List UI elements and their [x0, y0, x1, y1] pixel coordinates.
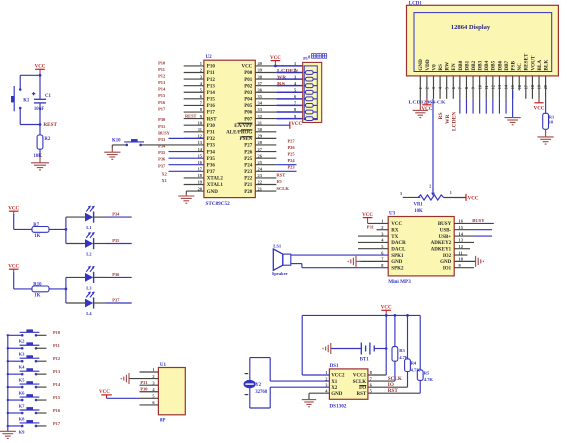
U2 GND pin 20 wire: [186, 191, 204, 196]
wire to L1 anode: [66, 216, 85, 218]
U1 pin6 stub: [140, 404, 159, 406]
svg-text:EA/VPP: EA/VPP: [234, 124, 252, 129]
svg-text:SPK2: SPK2: [391, 266, 404, 271]
resistor R3 4.7K: [392, 315, 409, 381]
svg-text:P37: P37: [158, 163, 166, 168]
svg-text:1: 1: [294, 61, 296, 66]
svg-text:32768: 32768: [255, 390, 268, 395]
ground (K10): [104, 152, 120, 159]
label 12864 Display: [451, 24, 491, 31]
svg-text:GND: GND: [207, 190, 219, 195]
svg-text:16: 16: [517, 85, 522, 89]
net label P11: [53, 343, 60, 348]
svg-text:DS1302: DS1302: [329, 403, 346, 409]
svg-text:C1: C1: [45, 94, 51, 99]
U2 pin numbers 1-20 (left): [198, 61, 203, 191]
svg-text:P35: P35: [112, 238, 120, 243]
U2 left pin stubs: [184, 66, 204, 185]
potentiometer VR1 10K: [414, 184, 444, 213]
svg-text:Y2: Y2: [255, 383, 261, 388]
svg-text:2: 2: [429, 184, 431, 188]
svg-text:P16: P16: [53, 408, 61, 413]
svg-text:17: 17: [523, 85, 528, 89]
svg-text:R10: R10: [33, 283, 42, 288]
LCD data stub wires DB0-DB7: [460, 99, 506, 114]
svg-text:WR: WR: [277, 74, 287, 79]
bus wires U2 P0x to resistor pack (rows 40-32): [276, 66, 304, 119]
svg-text:Mini MP3: Mini MP3: [388, 279, 411, 285]
svg-text:DB3: DB3: [478, 60, 484, 70]
svg-text:P36: P36: [207, 163, 216, 168]
svg-text:P12: P12: [207, 78, 216, 83]
net label P36: [112, 272, 120, 277]
net wire and label BUSY (U3 pin16): [472, 218, 494, 224]
wire RST (DS1 pin5): [368, 388, 420, 394]
power VCC (LED group 1): [8, 207, 19, 214]
svg-text:P30: P30: [158, 117, 166, 122]
svg-text:P11: P11: [53, 343, 60, 348]
svg-text:IO2: IO2: [443, 254, 452, 259]
ground (R1): [538, 137, 554, 144]
svg-text:DB4: DB4: [484, 60, 490, 70]
svg-text:VCC: VCC: [99, 390, 110, 395]
svg-text:BLA: BLA: [537, 60, 543, 71]
capacitor C1 10uF: [32, 75, 52, 124]
svg-text:P17: P17: [158, 106, 166, 111]
label P5 8-bit resistor array: [303, 54, 327, 62]
svg-text:P15: P15: [207, 98, 216, 103]
svg-text:ALE/PROG: ALE/PROG: [226, 130, 252, 135]
short net wires rows 25,24: [276, 165, 296, 172]
net label P14: [53, 382, 61, 387]
wire VCC top rail: [302, 314, 420, 316]
power VCC (LCD pin2 VDD): [421, 99, 432, 112]
svg-text:ADKEY1: ADKEY1: [431, 247, 452, 252]
svg-text:P10: P10: [158, 60, 166, 65]
svg-text:K7: K7: [19, 403, 26, 408]
svg-text:P10: P10: [207, 65, 216, 70]
DS1 pin numbers: [325, 370, 372, 393]
svg-text:WR: WR: [445, 114, 451, 125]
svg-text:VCC: VCC: [421, 107, 432, 112]
svg-text:2: 2: [294, 68, 296, 73]
svg-text:ADKEY2: ADKEY2: [431, 241, 452, 246]
net label LCD12864-CK: [409, 100, 447, 105]
net label P16: [53, 408, 61, 413]
switch K9: [7, 420, 40, 434]
svg-text:K4: K4: [19, 365, 26, 370]
net labels LCDEN WR RS (rows 39,38,37): [277, 68, 299, 86]
svg-text:P5: P5: [303, 56, 307, 61]
svg-text:BUSY: BUSY: [472, 218, 485, 223]
svg-text:TX: TX: [391, 235, 398, 240]
svg-text:X2: X2: [331, 386, 338, 391]
ground (LCD pin1 GND): [413, 99, 428, 118]
svg-text:P06: P06: [244, 111, 253, 116]
LED L2: [85, 232, 95, 257]
svg-text:20: 20: [543, 85, 548, 89]
U1 pin1 stub: [140, 371, 159, 373]
svg-text:LS1: LS1: [273, 244, 282, 249]
wire K7 to net label: [36, 399, 47, 401]
svg-text:VOUT: VOUT: [530, 55, 536, 70]
svg-text:K5: K5: [19, 378, 26, 383]
svg-text:P13: P13: [207, 84, 216, 89]
svg-text:P32: P32: [207, 137, 216, 142]
net label P12: [53, 356, 60, 361]
svg-text:XTAL1: XTAL1: [207, 183, 224, 188]
U2 left net labels P10-P17: [158, 60, 166, 111]
svg-text:IO: IO: [276, 179, 282, 184]
svg-text:VCC: VCC: [381, 306, 392, 311]
svg-text:13: 13: [497, 85, 502, 89]
U3 pin numbers 16-9: [459, 219, 464, 268]
svg-text:BLK: BLK: [544, 60, 550, 71]
svg-text:NC: NC: [517, 63, 523, 71]
power VCC (LED group 2): [8, 265, 19, 272]
svg-text:P04: P04: [244, 98, 253, 103]
VR1 pin3 wire: [400, 191, 420, 198]
svg-text:10K: 10K: [414, 209, 423, 214]
svg-text:DB6: DB6: [497, 60, 503, 70]
switch K8: [7, 407, 40, 421]
wire R7 to junction: [49, 228, 66, 230]
U2 right pin stubs: [255, 66, 276, 191]
svg-text:1: 1: [418, 87, 423, 89]
node REST: [39, 122, 58, 128]
svg-text:P15: P15: [158, 93, 166, 98]
svg-text:VCC: VCC: [270, 56, 281, 61]
resistor R1 10 (LCD backlight): [543, 99, 554, 137]
svg-text:P27: P27: [288, 138, 296, 143]
svg-text:R4: R4: [411, 361, 417, 366]
svg-text:P17: P17: [53, 421, 61, 426]
svg-text:P07: P07: [244, 117, 253, 122]
svg-text:P31: P31: [367, 225, 374, 230]
svg-text:P14: P14: [53, 382, 61, 387]
net label REST (pin9): [185, 113, 197, 118]
U2 pin numbers 40-21 (right): [258, 61, 263, 191]
svg-text:VCC: VCC: [534, 107, 545, 112]
svg-text:Speaker: Speaker: [272, 271, 288, 276]
LCD1 pin stubs: [420, 76, 545, 99]
LCD1 pin numbers 1-20 (vertical): [418, 84, 548, 89]
svg-text:X2: X2: [162, 172, 167, 177]
U1 pin4 stub and net label P30: [140, 387, 159, 392]
switch K6: [7, 381, 40, 395]
svg-text:REST: REST: [43, 122, 57, 128]
U2 left net labels P30 P31 BUSY P33-P37: [158, 117, 171, 168]
svg-text:P24: P24: [244, 163, 253, 168]
svg-text:DB0: DB0: [458, 60, 464, 70]
svg-text:P37: P37: [112, 297, 120, 302]
resistor network P5 8x body: [303, 62, 322, 122]
svg-text:SCLK: SCLK: [353, 380, 367, 385]
svg-text:4.7K: 4.7K: [424, 377, 434, 382]
svg-text:BUSY: BUSY: [438, 222, 452, 227]
svg-text:I/O: I/O: [359, 386, 366, 391]
switch K3: [7, 342, 40, 356]
svg-text:P12: P12: [158, 73, 165, 78]
svg-text:GND: GND: [391, 260, 403, 265]
node LED group1 junction: [65, 217, 68, 243]
svg-text:12864 Display: 12864 Display: [451, 24, 491, 31]
net label P37: [112, 297, 120, 302]
U3 pin7 GND wire: [356, 260, 388, 262]
svg-text:DB5: DB5: [491, 60, 497, 70]
net wires USB- USB+: [474, 230, 492, 236]
svg-text:R7: R7: [33, 223, 39, 228]
wire K2 to net label: [36, 334, 47, 336]
svg-text:RST: RST: [356, 392, 366, 397]
svg-text:L4: L4: [86, 311, 92, 316]
svg-text:10uF: 10uF: [34, 107, 44, 112]
switch K7: [7, 394, 40, 408]
svg-text:K6: K6: [19, 391, 26, 396]
crystal Y2 32768 loop wires: [250, 358, 330, 408]
net label P35: [112, 238, 120, 243]
svg-text:1K: 1K: [34, 294, 40, 299]
crystal Y2 body: [244, 374, 268, 395]
svg-text:P23: P23: [244, 170, 253, 175]
U1 pin3 stub and net label P31: [140, 380, 159, 385]
connector U1 8P body: [158, 363, 185, 423]
wire R10 to junction: [49, 288, 66, 290]
svg-text:P14: P14: [158, 87, 166, 92]
svg-text:DACL: DACL: [391, 247, 406, 252]
ground (battery): [323, 343, 331, 354]
key column common wire: [7, 335, 9, 431]
wire K10 left terminal to ground: [112, 145, 127, 152]
svg-text:P11: P11: [207, 71, 215, 76]
LCD1 pin names (vertical): [418, 53, 549, 71]
svg-text:8: 8: [464, 87, 469, 89]
svg-text:15: 15: [510, 85, 515, 89]
wire to L3 anode: [66, 276, 85, 278]
svg-text:RS: RS: [438, 112, 444, 119]
svg-text:P30: P30: [140, 387, 148, 392]
LED L3: [85, 266, 95, 291]
net label P31 and U3 pin2 stub: [367, 225, 388, 230]
svg-text:VCC2: VCC2: [331, 374, 345, 379]
wire R2 to ground: [39, 149, 41, 163]
U2 left net wires P32 P34-P37 (blue): [169, 138, 204, 171]
RTC DS1 DS1302 body: [329, 364, 368, 409]
U2 pin names (inside): [207, 65, 253, 195]
svg-text:P15: P15: [53, 395, 61, 400]
svg-text:P05: P05: [244, 104, 253, 109]
svg-text:P14: P14: [207, 91, 216, 96]
svg-text:R2: R2: [44, 137, 50, 142]
svg-text:1K: 1K: [34, 234, 40, 239]
ground (DS1 GND): [302, 400, 316, 407]
svg-text:3: 3: [431, 87, 436, 89]
svg-text:P25: P25: [288, 152, 296, 157]
svg-text:GND: GND: [418, 59, 424, 71]
svg-text:P31: P31: [207, 130, 216, 135]
ground (U2 GND): [178, 196, 194, 203]
wire SCLK (DS1 pin7): [368, 376, 402, 382]
battery BT1: [331, 343, 386, 363]
svg-text:STC89C52: STC89C52: [206, 201, 231, 207]
svg-text:VCC1: VCC1: [353, 374, 367, 379]
svg-text:18: 18: [530, 85, 535, 89]
U3 right pin stubs: [454, 223, 475, 267]
net label P15: [53, 395, 61, 400]
wire VCC node to K1 branch: [20, 75, 40, 89]
svg-text:P37: P37: [207, 170, 216, 175]
svg-text:VR1: VR1: [414, 203, 424, 208]
svg-text:P25: P25: [244, 157, 253, 162]
resistor pack pin numbers 1-9: [294, 61, 297, 119]
svg-text:P23: P23: [288, 165, 296, 170]
node rail junctions: [385, 314, 409, 317]
svg-text:GND: GND: [331, 392, 343, 397]
svg-text:VDD: VDD: [425, 59, 431, 70]
svg-text:XTAL2: XTAL2: [207, 177, 224, 182]
wire L1 to P34: [94, 216, 132, 218]
switch K5: [7, 368, 40, 382]
MCU U2 STC89C52 body: [204, 55, 255, 207]
svg-text:P34: P34: [207, 150, 216, 155]
resistor R7 1K: [32, 223, 49, 239]
svg-text:P31: P31: [140, 380, 147, 385]
node LED group2 junction: [65, 277, 68, 303]
wire to L2 anode: [66, 243, 85, 245]
svg-text:9: 9: [471, 87, 476, 89]
node reset-top junction: [39, 74, 42, 77]
svg-text:P34: P34: [112, 212, 120, 217]
svg-text:VCC: VCC: [468, 197, 479, 202]
svg-text:VCC: VCC: [8, 207, 19, 212]
svg-text:RS: RS: [277, 81, 286, 86]
svg-text:P31: P31: [158, 124, 165, 129]
ground (U3 pin7): [348, 256, 356, 267]
net label P34: [112, 212, 120, 217]
ground (reset circuit): [31, 163, 49, 170]
svg-text:8P: 8P: [160, 419, 166, 424]
svg-text:3: 3: [400, 191, 402, 196]
wire PSB to ground: [512, 91, 514, 118]
MP3 module U3 body: [388, 212, 454, 286]
wire SPK1 (speaker to U3 pin6): [291, 254, 388, 256]
svg-text:P33: P33: [158, 137, 166, 142]
svg-text:P13: P13: [158, 80, 166, 85]
wire K8 to net label: [36, 412, 47, 414]
svg-text:P27: P27: [244, 144, 253, 149]
svg-text:11: 11: [484, 85, 489, 89]
switch K2: [7, 329, 40, 343]
wire K6 to net label: [36, 386, 47, 388]
svg-text:L1: L1: [86, 225, 92, 230]
power VCC (DS1302 rail): [381, 306, 392, 316]
U3 pin numbers 1-8: [381, 219, 384, 268]
resistor pack internal resistors: [304, 71, 317, 121]
net labels P27-P23 (rows 28-24): [288, 138, 296, 169]
ground (U3 pin10): [476, 256, 484, 267]
wire K4 to net label: [36, 360, 47, 362]
wire to L4 anode: [66, 302, 85, 304]
wire rail to DS1 pin1 VCC2: [302, 315, 329, 375]
U1 pin5 wire from VCC: [99, 390, 158, 398]
resistor R5 4.7K: [417, 315, 433, 393]
svg-text:7: 7: [458, 87, 463, 89]
svg-text:DB1: DB1: [464, 60, 470, 70]
svg-text:RST: RST: [207, 117, 217, 122]
svg-text:DACR: DACR: [391, 241, 406, 246]
svg-text:R3: R3: [399, 348, 405, 353]
resistor R2 10K: [34, 125, 51, 159]
wire SPK2 (speaker to U3 pin8): [291, 264, 388, 268]
svg-text:K2: K2: [19, 339, 26, 344]
power VCC (LCD pin19 BLA): [534, 99, 545, 112]
svg-text:R5: R5: [424, 370, 430, 375]
svg-text:REST: REST: [185, 113, 197, 118]
svg-text:12: 12: [490, 85, 495, 89]
svg-text:X1: X1: [162, 178, 167, 183]
svg-text:U2: U2: [206, 55, 213, 60]
svg-text:U3: U3: [389, 212, 396, 217]
DS1 pin names (inside): [331, 374, 367, 397]
U1 pin numbers 1-6: [152, 367, 155, 405]
switch K1: [11, 86, 30, 111]
svg-text:X1: X1: [331, 380, 338, 385]
svg-text:P12: P12: [53, 356, 60, 361]
wire L2 to P35: [94, 243, 132, 245]
wire K5 to net label: [36, 373, 47, 375]
svg-text:LCD1: LCD1: [409, 2, 423, 7]
svg-text:USB+: USB+: [439, 235, 452, 240]
U1 pin2 wire to ground: [129, 378, 158, 380]
resistor R4 4.7K: [405, 315, 421, 387]
svg-text:P34: P34: [158, 144, 166, 149]
wire K1 lower to REST node: [20, 108, 40, 125]
svg-text:BT1: BT1: [360, 358, 369, 363]
LED L4: [85, 292, 95, 317]
wire K9 to net label: [36, 425, 47, 427]
svg-text:BUSY: BUSY: [158, 130, 171, 135]
svg-text:EN: EN: [451, 63, 457, 70]
svg-text:P22: P22: [244, 177, 253, 182]
svg-text:P30: P30: [207, 124, 216, 129]
ground (key column): [0, 431, 16, 438]
power VCC (U3 pin1): [362, 213, 388, 223]
net label P13: [53, 369, 61, 374]
svg-text:P17: P17: [207, 111, 216, 116]
LCD module LCD1 body: [407, 2, 559, 76]
svg-text:USB-: USB-: [440, 228, 452, 233]
svg-text:DB2: DB2: [471, 60, 477, 70]
svg-text:RW: RW: [445, 61, 451, 71]
wire IO (DS1 pin6): [368, 382, 408, 388]
wire K10 right terminal to U2 pin13: [141, 144, 204, 146]
svg-text:SCLK: SCLK: [388, 376, 402, 382]
wire and power VCC at U2 pin31 (EA): [276, 122, 302, 129]
resistor R10 1K: [32, 283, 49, 299]
svg-text:P02: P02: [244, 84, 253, 89]
svg-text:K10: K10: [112, 138, 121, 143]
svg-text:PSB: PSB: [511, 61, 517, 71]
svg-text:IO1: IO1: [443, 266, 452, 271]
svg-text:RST: RST: [276, 173, 285, 178]
svg-text:P36: P36: [112, 272, 120, 277]
svg-text:P26: P26: [288, 145, 296, 150]
svg-text:P00: P00: [244, 71, 253, 76]
wire VCC to R7: [14, 214, 32, 230]
svg-text:P20: P20: [244, 190, 253, 195]
switch K4: [7, 355, 40, 369]
svg-text:1: 1: [450, 190, 452, 195]
